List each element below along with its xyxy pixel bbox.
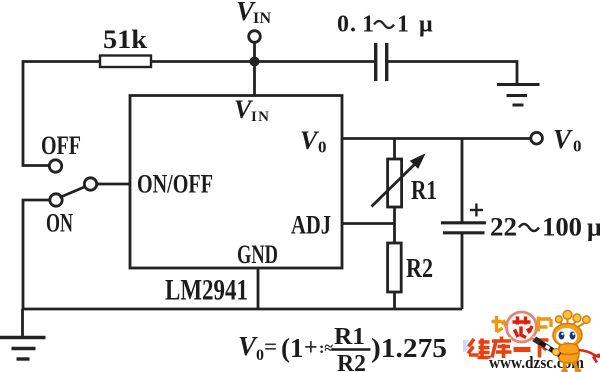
watermark text wei xyxy=(468,339,491,358)
watermark red row white halo xyxy=(468,337,549,356)
tilde of 22~100u xyxy=(519,224,539,231)
ground symbol top right xyxy=(497,83,540,86)
svg-text:IN: IN xyxy=(251,109,269,125)
svg-text:)1.275: )1.275 xyxy=(371,333,447,363)
capacitor C2 plus polarity sign xyxy=(470,209,483,211)
resistor R2 xyxy=(388,243,402,292)
svg-text:1: 1 xyxy=(397,12,409,38)
tilde of 0.1~1u xyxy=(374,21,394,28)
label VIN top xyxy=(236,0,271,27)
svg-text:0: 0 xyxy=(337,12,349,38)
svg-text:100: 100 xyxy=(542,213,582,242)
ground symbol bottom left xyxy=(0,336,46,339)
wire left rail to ground symbol xyxy=(21,309,24,336)
formula VO = (1 + R1/R2) x 1.275 xyxy=(238,324,469,372)
mascot feet xyxy=(563,361,567,370)
mascot belt xyxy=(559,353,578,355)
svg-text:.: . xyxy=(350,12,356,38)
label VO output xyxy=(553,124,582,156)
svg-text:R2: R2 xyxy=(406,253,433,283)
svg-text:(1: (1 xyxy=(281,333,304,363)
mascot pen xyxy=(535,339,561,355)
value label 22~100u xyxy=(490,213,600,242)
wire VO rail to R1 top xyxy=(393,139,396,160)
svg-text:ON/OFF: ON/OFF xyxy=(137,169,213,199)
svg-text:μ: μ xyxy=(587,213,600,242)
wire R2 bottom to ground rail xyxy=(393,292,396,309)
resistor R1 adjustable body xyxy=(388,159,402,207)
mascot red tassel xyxy=(579,350,600,363)
switch S1 ON contact xyxy=(50,194,62,206)
wire ON stub + left rail lower xyxy=(23,200,50,309)
wire junction down to IC VIN pin xyxy=(253,61,256,96)
mascot mouth xyxy=(565,343,569,344)
node VIN input terminal xyxy=(249,31,261,43)
wire capacitor C2 to ground rail xyxy=(461,233,464,309)
svg-text:GND: GND xyxy=(237,239,278,269)
wire pole to ON/OFF pin xyxy=(97,183,130,186)
switch S1 OFF contact xyxy=(49,160,61,172)
wire VO rail down to capacitor C2 xyxy=(461,139,464,222)
node VO output terminal xyxy=(531,132,543,144)
svg-text:μ: μ xyxy=(419,12,433,38)
mascot head xyxy=(553,324,582,347)
wire VO pin to output terminal xyxy=(342,137,531,140)
value label 0.1~1u xyxy=(337,12,433,38)
capacitor C2 22-100u plates xyxy=(441,221,486,224)
watermark text yi xyxy=(514,347,531,352)
mascot eyes xyxy=(559,332,565,340)
mascot hand xyxy=(553,349,560,356)
switch S1 arm xyxy=(60,187,86,198)
svg-text:V: V xyxy=(553,124,573,154)
svg-text:1: 1 xyxy=(362,12,374,38)
wire ADJ pin to divider junction xyxy=(342,222,395,225)
svg-text:22: 22 xyxy=(490,213,517,242)
mascot body xyxy=(558,344,579,364)
svg-text:LM2941: LM2941 xyxy=(165,274,248,307)
wire capacitor to ground xyxy=(388,62,517,84)
svg-text:=: = xyxy=(264,334,277,359)
svg-text:0: 0 xyxy=(318,138,327,157)
svg-text:ADJ: ADJ xyxy=(291,210,331,240)
svg-text::≈: :≈ xyxy=(319,340,333,357)
watermark magnifier circle xyxy=(507,312,537,342)
wire top rail left + left rail down to OFF stub xyxy=(23,62,100,166)
wire bottom ground rail xyxy=(22,308,462,311)
mascot antenna stalks xyxy=(560,319,585,328)
svg-text:OFF: OFF xyxy=(41,130,81,160)
wire GND pin to ground rail xyxy=(257,268,260,309)
svg-text:0: 0 xyxy=(256,347,264,364)
watermark text xin (chip) in magnifier xyxy=(513,317,533,338)
watermark text pian (piece) xyxy=(539,317,552,332)
wire VIN terminal to junction xyxy=(253,42,256,61)
mascot antenna balls xyxy=(555,316,562,323)
svg-text:R1: R1 xyxy=(334,324,365,350)
watermark group bottom right xyxy=(468,310,600,372)
stray blue watermark fleck xyxy=(463,340,469,352)
junction dot on VIN rail xyxy=(250,57,260,67)
op-amp U1 LM2941 regulator box xyxy=(130,96,342,269)
svg-text:+: + xyxy=(304,335,318,361)
watermark text ku xyxy=(492,337,512,359)
watermark text xia xyxy=(533,340,549,358)
pin label VIN inside box xyxy=(234,95,269,125)
svg-text:R1: R1 xyxy=(411,175,437,205)
wire resistor to junction to capacitor xyxy=(151,60,374,63)
mascot robot xyxy=(535,310,600,372)
svg-text:ON: ON xyxy=(46,208,73,238)
capacitor C 0.1-1u plates xyxy=(374,43,377,81)
resistor R1 arrow xyxy=(372,162,418,207)
svg-text:IN: IN xyxy=(253,10,271,27)
switch S1 pole contact xyxy=(84,178,96,190)
svg-text:0: 0 xyxy=(573,137,582,156)
watermark text zhao (find) xyxy=(492,316,514,333)
mascot face xyxy=(556,328,577,345)
wire R1 bottom to R2 top through ADJ junction xyxy=(393,207,396,243)
svg-text:V: V xyxy=(238,331,258,361)
svg-text:R2: R2 xyxy=(337,351,366,372)
svg-text:V: V xyxy=(300,126,320,155)
resistor 51k xyxy=(100,56,151,68)
pin label VO inside box xyxy=(300,126,327,157)
svg-text:51k: 51k xyxy=(103,25,148,54)
